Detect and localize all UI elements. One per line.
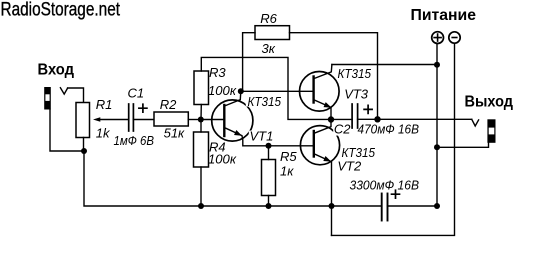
transistor VT1 circle [212, 100, 253, 141]
output jack XS2 [487, 119, 495, 143]
node dot jack sleeve / plus rail [434, 144, 440, 150]
battery minus terminal [449, 32, 460, 43]
wire VT3 collector to battery plus [332, 64, 437, 66]
label VT1 [249, 131, 269, 142]
label КТ315 VT1 [246, 94, 283, 107]
wire input tick to pot top [68, 88, 84, 103]
wire R2 to VT1 base node [188, 119, 201, 121]
potentiometer R1 body [76, 103, 90, 138]
svg-text:КТ315: КТ315 [338, 66, 372, 81]
wire battery minus down to bottom loop [332, 44, 455, 235]
svg-text:Выход: Выход [465, 94, 514, 111]
wire R5 top lead [268, 146, 270, 160]
node dot R5 top / VT2 base [266, 143, 272, 149]
label C3 plus [392, 190, 400, 198]
wire base node to VT1 base [201, 119, 223, 121]
node dot R5 ground [266, 203, 272, 209]
svg-text:R1: R1 [96, 97, 113, 112]
resistor R4 body [194, 132, 209, 167]
transistor VT2 collector [314, 120, 331, 134]
svg-text:Питание: Питание [411, 7, 477, 24]
transistor VT2 circle [300, 126, 339, 165]
svg-text:VT1: VT1 [250, 129, 274, 144]
wire output line [378, 118, 472, 120]
wire battery plus down [436, 45, 438, 207]
wire R6 left lead down to VT1 collector node [243, 33, 255, 92]
node dot C3 / plus rail bottom [434, 203, 440, 209]
node dot VT1 collector [238, 88, 244, 94]
svg-text:3к: 3к [262, 41, 276, 56]
node dot C2/R6 [374, 116, 380, 122]
resistor R5 body [262, 160, 276, 196]
wire R3 bottom to base node [200, 105, 202, 120]
wire R6 right lead down to C2 node [290, 33, 378, 120]
wire R3 top over and down to VT3 emitter node [201, 57, 331, 119]
svg-text:КТ315: КТ315 [248, 94, 282, 109]
transistor VT2 base bar [313, 131, 315, 157]
label C2 plus [364, 105, 372, 113]
node dot battery plus junction [434, 62, 440, 68]
svg-text:R3: R3 [209, 65, 226, 80]
svg-text:470мФ 16В: 470мФ 16В [358, 121, 420, 136]
svg-text:51к: 51к [164, 126, 185, 141]
transistor VT1 emitter with arrow [225, 128, 242, 136]
transistor VT1 base bar [223, 105, 225, 136]
wire C2 right plate to R6 node [358, 118, 378, 120]
wire node down to ground rail [84, 151, 382, 206]
svg-text:R5: R5 [280, 149, 297, 164]
wire base node to R4 top [200, 120, 202, 133]
wire C1 to R2 [133, 119, 154, 121]
svg-text:C1: C1 [128, 86, 145, 101]
svg-text:C2: C2 [334, 122, 351, 137]
potentiometer R1 wiper arrow [100, 119, 129, 121]
wire pot bottom to node [83, 138, 85, 152]
svg-text:VT3: VT3 [344, 86, 369, 101]
svg-text:RadioStorage.net: RadioStorage.net [1, 0, 121, 20]
resistor R3 body [194, 71, 209, 105]
node dot pot/ground [81, 148, 87, 154]
wire VT2 base from node [269, 145, 313, 147]
svg-text:R2: R2 [160, 97, 177, 112]
wire C3 right plate to plus rail bottom [388, 205, 438, 207]
transistor VT3 emitter with arrow [314, 100, 331, 107]
capacitor C1 plates [128, 104, 130, 131]
wire node to C2 left plate [331, 118, 352, 120]
wire input jack sleeve down to ground node [50, 110, 84, 152]
input jack XS1 [44, 87, 51, 110]
output tick [472, 119, 479, 126]
wire R4 bottom to ground rail [200, 167, 202, 206]
node dot R4 ground [198, 203, 204, 209]
wire VT1 emitter to R5/VT2 base node [242, 136, 269, 146]
node dot VT1 base [198, 117, 204, 123]
resistor R2 body [154, 112, 188, 126]
transistor VT1 collector [225, 91, 241, 106]
wire output jack sleeve to plus rail [437, 143, 489, 148]
input jack tip tick [60, 88, 67, 94]
capacitor C2 plates [351, 104, 353, 128]
svg-text:R6: R6 [260, 11, 277, 26]
transistor VT3 collector [314, 65, 332, 79]
svg-text:100к: 100к [208, 151, 237, 166]
svg-text:VT2: VT2 [337, 158, 362, 173]
battery plus terminal [432, 32, 444, 44]
svg-text:1к: 1к [280, 164, 294, 179]
capacitor C3 3300мФ plates [381, 194, 383, 221]
label C2 [333, 123, 350, 136]
node dot VT2 emitter ground [329, 203, 335, 209]
svg-text:3300мФ 16В: 3300мФ 16В [350, 177, 420, 192]
node dot VT3 emitter / VT2 collector / C2 [328, 116, 334, 122]
wire VT1 collector node to VT3 base [241, 90, 313, 92]
transistor VT2 emitter with arrow [314, 154, 330, 161]
svg-text:100к: 100к [208, 83, 237, 98]
wire VT3 emitter down to node [330, 108, 332, 119]
wire VT2 emitter down through ground rail to bottom loop [331, 162, 333, 235]
wire R5 bottom to ground rail [268, 196, 270, 207]
svg-text:1мФ 6В: 1мФ 6В [114, 133, 155, 148]
svg-text:Вход: Вход [38, 61, 75, 78]
label C1 plus [139, 104, 147, 112]
transistor VT3 base bar [312, 77, 314, 103]
resistor R6 body [255, 26, 290, 40]
transistor VT3 circle [300, 72, 340, 112]
svg-text:1k: 1k [96, 126, 111, 141]
